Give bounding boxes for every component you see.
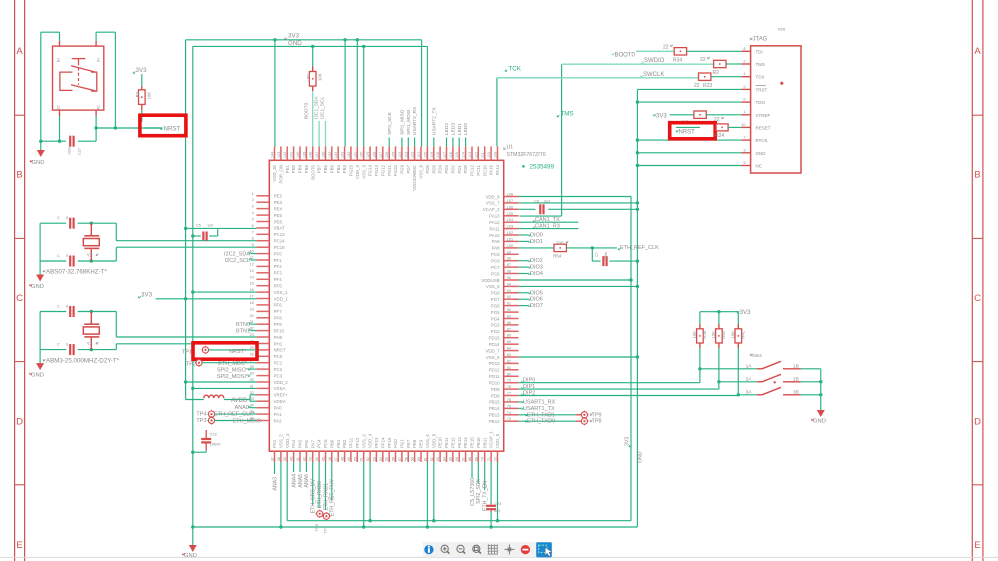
svg-text:8: 8 [66, 216, 68, 220]
svg-text:D: D [974, 417, 981, 428]
svg-text:PG2: PG2 [491, 329, 500, 334]
svg-text:30: 30 [250, 378, 254, 382]
svg-text:129: 129 [366, 152, 370, 158]
svg-text:49: 49 [347, 457, 351, 461]
svg-text:JTAG: JTAG [753, 37, 768, 43]
svg-text:PD4: PD4 [438, 164, 443, 173]
svg-text:VSS_8: VSS_8 [419, 164, 424, 178]
svg-text:TP1: TP1 [182, 350, 192, 356]
svg-text:PE13: PE13 [457, 437, 462, 448]
svg-text:R1: R1 [306, 73, 311, 79]
svg-text:VCAP_2: VCAP_2 [483, 207, 500, 212]
svg-text:A1: A1 [97, 58, 101, 63]
svg-text:31: 31 [250, 384, 254, 388]
svg-text:91: 91 [507, 302, 511, 306]
svg-text:PA12: PA12 [489, 220, 500, 225]
svg-text:8: 8 [743, 47, 745, 51]
svg-text:PE9: PE9 [419, 439, 424, 448]
svg-text:53: 53 [372, 457, 376, 461]
svg-text:ETH_RST_PHY: ETH_RST_PHY [330, 478, 336, 516]
svg-text:50: 50 [353, 457, 357, 461]
svg-text:13: 13 [250, 269, 254, 273]
svg-text:72: 72 [494, 457, 498, 461]
svg-text:GND: GND [31, 284, 44, 290]
svg-text:PG9: PG9 [400, 164, 405, 173]
svg-text:1: 1 [743, 110, 745, 114]
svg-text:TP9: TP9 [592, 412, 602, 418]
svg-text:PG8: PG8 [491, 291, 500, 296]
svg-text:ETH_TXD1: ETH_TXD1 [527, 412, 555, 418]
svg-text:PB4: PB4 [336, 164, 341, 173]
svg-text:VSSA: VSSA [274, 386, 286, 391]
svg-text:PD13: PD13 [489, 361, 501, 366]
svg-text:C5: C5 [196, 224, 201, 228]
svg-text:C: C [57, 254, 60, 258]
svg-text:PF11: PF11 [349, 437, 354, 448]
svg-text:R39: R39 [702, 330, 707, 338]
svg-text:118: 118 [436, 152, 440, 158]
svg-text:PC4: PC4 [317, 439, 322, 448]
svg-text:117: 117 [443, 152, 447, 158]
svg-text:VBAT: VBAT [274, 226, 285, 231]
svg-text:PB6: PB6 [323, 164, 328, 173]
svg-text:BTN0: BTN0 [236, 322, 250, 328]
svg-text:GND: GND [32, 160, 45, 166]
svg-text:64: 64 [443, 457, 447, 461]
svg-text:19: 19 [250, 307, 254, 311]
svg-text:DIP2: DIP2 [523, 391, 535, 397]
svg-text:NRST: NRST [164, 125, 181, 132]
svg-text:E: E [16, 540, 22, 551]
svg-text:1uF: 1uF [207, 224, 214, 228]
svg-text:124: 124 [398, 152, 402, 158]
svg-text:144: 144 [271, 152, 275, 158]
svg-text:136: 136 [322, 152, 326, 158]
svg-text:76: 76 [507, 398, 511, 402]
svg-text:Y2: Y2 [87, 253, 93, 259]
svg-text:VSS_4: VSS_4 [425, 434, 430, 448]
svg-text:PF9: PF9 [274, 322, 283, 327]
svg-text:C: C [57, 305, 60, 309]
svg-text:A: A [16, 46, 23, 57]
svg-text:VDDSDMMC: VDDSDMMC [412, 165, 417, 191]
svg-text:PG0: PG0 [393, 439, 398, 448]
svg-text:PC9: PC9 [491, 252, 500, 257]
svg-text:VSS_5: VSS_5 [486, 355, 500, 360]
svg-text:77: 77 [507, 392, 511, 396]
svg-text:PC6: PC6 [491, 271, 500, 276]
svg-text:PB3: PB3 [342, 164, 347, 173]
svg-text:107: 107 [507, 199, 513, 203]
svg-text:3V3: 3V3 [740, 309, 752, 316]
svg-text:22: 22 [694, 83, 700, 89]
svg-text:SPI1_SCK: SPI1_SCK [387, 111, 393, 135]
svg-text:58: 58 [404, 457, 408, 461]
svg-text:VDD_4: VDD_4 [368, 433, 373, 448]
svg-text:C: C [974, 293, 981, 304]
svg-text:3V3: 3V3 [656, 113, 667, 119]
svg-text:PD3: PD3 [444, 164, 449, 173]
svg-text:PE2: PE2 [274, 194, 283, 199]
svg-text:PA4: PA4 [291, 439, 296, 448]
svg-text:SWDIO: SWDIO [644, 58, 665, 64]
svg-text:143: 143 [277, 152, 281, 158]
svg-text:88: 88 [507, 321, 511, 325]
svg-text:VDD_7: VDD_7 [485, 348, 500, 353]
svg-text:PB13: PB13 [489, 413, 500, 418]
svg-text:I2C2_SCL: I2C2_SCL [225, 258, 250, 264]
svg-text:119: 119 [430, 152, 434, 158]
svg-text:PD9: PD9 [491, 387, 500, 392]
svg-text:VDD_9: VDD_9 [355, 164, 360, 179]
svg-text:9: 9 [66, 343, 68, 347]
svg-text:NRST*: NRST* [229, 349, 247, 355]
svg-text:PA11: PA11 [490, 226, 501, 231]
svg-text:PE8: PE8 [412, 439, 417, 448]
svg-text:C22: C22 [210, 432, 218, 437]
svg-text:2: 2 [90, 234, 94, 236]
svg-text:1: 1 [252, 192, 254, 196]
svg-text:SPI1_MISO: SPI1_MISO [400, 109, 406, 135]
svg-text:PF12: PF12 [355, 437, 360, 448]
svg-text:PF4: PF4 [274, 277, 283, 282]
svg-text:132: 132 [347, 152, 351, 158]
svg-text:7: 7 [252, 230, 254, 234]
svg-text:105: 105 [507, 212, 513, 216]
svg-text:PA13: PA13 [489, 214, 500, 219]
svg-text:100n: 100n [604, 252, 608, 260]
svg-text:PE4: PE4 [274, 206, 283, 211]
svg-text:LED0: LED0 [463, 123, 469, 135]
svg-text:VDD_1: VDD_1 [274, 296, 289, 301]
svg-text:SPI2_MISO*: SPI2_MISO* [217, 367, 249, 373]
svg-text:4: 4 [743, 72, 745, 76]
svg-text:PB7: PB7 [317, 164, 322, 173]
svg-text:100: 100 [556, 241, 564, 246]
svg-text:I2C1_SCL: I2C1_SCL [320, 97, 326, 119]
svg-text:ETH_TXD0: ETH_TXD0 [527, 419, 555, 425]
svg-text:TCK: TCK [509, 65, 522, 72]
svg-text:B: B [16, 170, 22, 181]
svg-text:PE7: PE7 [406, 439, 411, 448]
svg-text:PD14: PD14 [489, 342, 501, 347]
svg-text:PD7: PD7 [406, 164, 411, 173]
svg-text:15: 15 [250, 282, 254, 286]
svg-text:22: 22 [700, 57, 706, 63]
svg-text:140: 140 [296, 152, 300, 158]
svg-text:62: 62 [430, 457, 434, 461]
svg-text:22: 22 [714, 117, 720, 123]
svg-text:2: 2 [743, 60, 745, 64]
svg-text:C: C [57, 216, 60, 220]
svg-text:98: 98 [507, 257, 511, 261]
svg-text:11: 11 [250, 256, 254, 260]
svg-text:PD10: PD10 [489, 381, 501, 386]
svg-text:17: 17 [250, 295, 254, 299]
svg-text:VDD_5: VDD_5 [431, 433, 436, 448]
svg-text:95: 95 [507, 276, 511, 280]
svg-text:20: 20 [250, 314, 254, 318]
svg-text:DIO5: DIO5 [530, 290, 543, 296]
svg-text:115: 115 [455, 152, 459, 158]
svg-text:DIO4: DIO4 [530, 271, 543, 277]
svg-text:PE11: PE11 [444, 437, 449, 448]
svg-text:37: 37 [271, 457, 275, 461]
svg-text:2: 2 [90, 322, 94, 324]
svg-text:TP4: TP4 [196, 412, 206, 418]
svg-text:67: 67 [462, 457, 466, 461]
svg-text:43: 43 [309, 457, 313, 461]
svg-text:66: 66 [455, 457, 459, 461]
svg-text:7: 7 [743, 136, 745, 140]
svg-text:PE0: PE0 [291, 164, 296, 173]
svg-text:PG7: PG7 [491, 297, 500, 302]
svg-text:PA15: PA15 [489, 164, 494, 175]
svg-text:113: 113 [468, 152, 472, 158]
svg-text:PB1: PB1 [336, 439, 341, 448]
svg-text:C: C [16, 293, 23, 304]
svg-text:LED2: LED2 [444, 123, 450, 135]
svg-text:TP2: TP2 [186, 362, 196, 368]
svg-text:PE6: PE6 [274, 219, 283, 224]
svg-text:LED3: LED3 [451, 123, 457, 135]
svg-text:137: 137 [315, 152, 319, 158]
svg-text:PB8: PB8 [304, 164, 309, 173]
svg-text:10K: 10K [692, 331, 697, 339]
svg-text:74: 74 [507, 411, 511, 415]
svg-text:PB9: PB9 [298, 164, 303, 173]
svg-text:USART1_TX: USART1_TX [523, 406, 555, 412]
svg-text:97: 97 [507, 263, 511, 267]
svg-text:ANA4: ANA4 [291, 474, 297, 488]
svg-text:I2C1_SDA: I2C1_SDA [313, 96, 319, 119]
svg-text:VDD_8: VDD_8 [485, 194, 500, 199]
svg-text:R23: R23 [703, 83, 712, 89]
svg-text:TP6: TP6 [314, 523, 319, 531]
svg-text:9: 9 [743, 85, 745, 89]
svg-text:NC: NC [756, 164, 763, 169]
svg-text:PA14: PA14 [495, 164, 500, 175]
svg-text:PA5: PA5 [298, 439, 303, 448]
svg-text:93: 93 [507, 289, 511, 293]
svg-text:CAN1_TX: CAN1_TX [535, 217, 560, 223]
svg-text:AVDD: AVDD [231, 398, 248, 404]
svg-text:10K: 10K [317, 73, 322, 81]
svg-text:ETH_CRS_DV: ETH_CRS_DV [311, 478, 317, 513]
svg-text:2u2: 2u2 [544, 200, 550, 204]
svg-text:52: 52 [366, 457, 370, 461]
svg-text:ANA3: ANA3 [272, 477, 278, 491]
svg-text:ANA0: ANA0 [235, 405, 249, 411]
svg-text:3: 3 [743, 148, 745, 152]
svg-text:48: 48 [341, 457, 345, 461]
svg-text:GND: GND [638, 451, 644, 463]
svg-text:71: 71 [487, 457, 491, 461]
svg-text:5: 5 [252, 218, 254, 222]
svg-text:PF13: PF13 [374, 437, 379, 448]
svg-text:USART2_TX: USART2_TX [431, 107, 437, 135]
svg-text:POR_ON: POR_ON [279, 165, 284, 184]
svg-text:PB0: PB0 [329, 439, 334, 448]
svg-text:USART2_RX: USART2_RX [412, 106, 418, 135]
svg-text:BOOT0: BOOT0 [310, 164, 315, 179]
svg-text:PC11: PC11 [476, 164, 481, 175]
svg-text:PF14: PF14 [380, 437, 385, 448]
svg-text:PG3: PG3 [491, 323, 500, 328]
svg-text:ETH_RXD0: ETH_RXD0 [317, 481, 323, 508]
svg-text:PC3: PC3 [274, 373, 283, 378]
svg-text:PA9: PA9 [492, 239, 501, 244]
svg-text:111: 111 [481, 152, 485, 158]
svg-text:R40: R40 [721, 330, 726, 338]
svg-text:122: 122 [411, 152, 415, 158]
svg-text:126: 126 [385, 152, 389, 158]
svg-text:106: 106 [507, 205, 513, 209]
svg-text:61: 61 [423, 457, 427, 461]
svg-text:USART1_RX: USART1_RX [523, 399, 556, 405]
svg-text:VDDUSB: VDDUSB [481, 278, 499, 283]
svg-text:TMS: TMS [756, 62, 766, 67]
svg-text:C7: C7 [595, 252, 599, 257]
svg-text:3V3: 3V3 [141, 292, 153, 299]
svg-text:ABM3-25.000MHZ-D2Y-T*: ABM3-25.000MHZ-D2Y-T* [46, 358, 120, 365]
svg-text:DIO7: DIO7 [530, 303, 543, 309]
svg-text:100n: 100n [67, 147, 71, 155]
svg-text:2: 2 [252, 198, 254, 202]
svg-text:PF3: PF3 [274, 271, 283, 276]
svg-text:110: 110 [487, 152, 491, 158]
svg-text:R34: R34 [673, 58, 682, 64]
svg-text:ETH_REF_CLK: ETH_REF_CLK [620, 245, 659, 251]
svg-text:23: 23 [250, 333, 254, 337]
svg-text:VSS_1: VSS_1 [274, 290, 288, 295]
svg-text:R2: R2 [713, 70, 720, 76]
svg-text:PA3: PA3 [272, 439, 277, 448]
svg-text:100nF: 100nF [210, 442, 222, 447]
svg-text:PC14: PC14 [274, 239, 286, 244]
svg-text:GND: GND [31, 373, 44, 379]
svg-text:U1: U1 [507, 145, 514, 151]
svg-text:Y3: Y3 [87, 341, 93, 347]
svg-text:PF6: PF6 [274, 303, 283, 308]
svg-text:PC1: PC1 [274, 361, 283, 366]
svg-text:CS_LS7366: CS_LS7366 [470, 478, 476, 506]
svg-text:DIP1: DIP1 [523, 384, 535, 390]
svg-text:38: 38 [277, 457, 281, 461]
svg-text:PD15: PD15 [489, 336, 501, 341]
svg-text:E: E [974, 540, 980, 551]
svg-text:4: 4 [252, 211, 254, 215]
svg-text:PA7: PA7 [310, 439, 315, 448]
svg-text:8: 8 [66, 305, 68, 309]
svg-text:PD12: PD12 [489, 368, 501, 373]
svg-text:PC8: PC8 [491, 259, 500, 264]
svg-text:ETH_REF_CLK*: ETH_REF_CLK* [214, 411, 256, 417]
svg-text:ETH_MDC*: ETH_MDC* [218, 361, 248, 367]
svg-text:PA8: PA8 [492, 246, 501, 251]
svg-text:PG6: PG6 [491, 303, 500, 308]
svg-text:R3: R3 [135, 91, 140, 97]
svg-text:C27: C27 [78, 148, 82, 155]
svg-text:PE1: PE1 [285, 164, 290, 173]
svg-text:GND: GND [184, 553, 197, 559]
svg-text:101: 101 [507, 237, 513, 241]
svg-text:I2C2_SDA: I2C2_SDA [224, 252, 250, 258]
svg-text:134: 134 [334, 152, 338, 158]
svg-text:DIO0: DIO0 [530, 233, 543, 239]
svg-text:3: 3 [252, 205, 254, 209]
svg-text:PG14: PG14 [368, 164, 373, 176]
svg-text:SW4: SW4 [752, 353, 762, 358]
svg-text:45: 45 [322, 457, 326, 461]
svg-text:D: D [16, 417, 23, 428]
svg-text:PD8: PD8 [491, 393, 500, 398]
svg-text:PD0: PD0 [463, 164, 468, 173]
svg-text:9: 9 [66, 254, 68, 258]
svg-text:57: 57 [398, 457, 402, 461]
svg-text:ETH_MDIO: ETH_MDIO [233, 419, 262, 425]
svg-text:112: 112 [474, 152, 478, 158]
svg-text:ANA5: ANA5 [298, 474, 304, 488]
svg-text:PB12: PB12 [489, 419, 500, 424]
svg-text:6: 6 [252, 224, 254, 228]
svg-text:NRST: NRST [274, 348, 286, 353]
svg-text:TCK: TCK [756, 75, 765, 80]
svg-text:TP7: TP7 [323, 525, 328, 533]
svg-text:PE5: PE5 [274, 213, 283, 218]
svg-text:PF5: PF5 [274, 284, 283, 289]
svg-text:ETH_RXD1: ETH_RXD1 [323, 483, 329, 510]
svg-text:114: 114 [462, 152, 466, 158]
svg-text:VCAP_1: VCAP_1 [489, 431, 494, 448]
svg-text:PE14: PE14 [463, 437, 468, 448]
svg-text:VDD_2: VDD_2 [274, 380, 289, 385]
svg-text:70: 70 [481, 457, 485, 461]
svg-text:32: 32 [250, 391, 254, 395]
svg-text:16: 16 [250, 288, 254, 292]
svg-text:142: 142 [283, 152, 287, 158]
svg-text:TP3: TP3 [196, 418, 206, 424]
svg-text:125: 125 [392, 152, 396, 158]
svg-text:GND: GND [813, 419, 826, 425]
svg-text:55: 55 [385, 457, 389, 461]
svg-text:PB5: PB5 [329, 164, 334, 173]
svg-text:VDD_3: VDD_3 [285, 433, 290, 448]
svg-text:46: 46 [328, 457, 332, 461]
svg-text:PD5: PD5 [431, 164, 436, 173]
svg-text:R26: R26 [778, 27, 786, 32]
svg-text:3V3: 3V3 [625, 437, 631, 446]
svg-text:PB14: PB14 [489, 406, 500, 411]
svg-text:PB15: PB15 [489, 400, 500, 405]
svg-text:PF2: PF2 [274, 264, 283, 269]
svg-text:10: 10 [741, 123, 745, 127]
svg-text:DIO2: DIO2 [530, 258, 543, 264]
svg-text:18: 18 [250, 301, 254, 305]
svg-text:PD2: PD2 [451, 164, 456, 173]
svg-text:VSS_2: VSS_2 [279, 434, 284, 448]
svg-text:44: 44 [315, 457, 319, 461]
svg-text:127: 127 [379, 152, 383, 158]
svg-text:94: 94 [507, 282, 511, 286]
svg-text:VREF+: VREF+ [274, 393, 289, 398]
svg-text:PA2: PA2 [274, 418, 283, 423]
svg-text:PE15: PE15 [470, 437, 475, 448]
svg-text:47: 47 [334, 457, 338, 461]
svg-text:PC5: PC5 [323, 439, 328, 448]
svg-text:130: 130 [360, 152, 364, 158]
svg-text:108: 108 [507, 193, 513, 197]
